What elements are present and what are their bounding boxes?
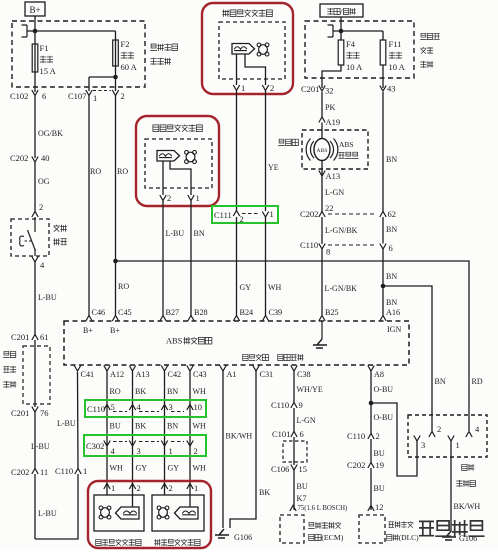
svg-text:15 A: 15 A <box>40 66 57 76</box>
fuel connector pin 4 <box>466 424 480 437</box>
wire BU <box>371 439 385 463</box>
RR sensor pin 1 <box>187 483 198 493</box>
toothed ring <box>257 43 269 56</box>
wire L-GN <box>322 176 344 213</box>
label 左后轮速传感器 <box>96 539 141 546</box>
data link connector DLC (dashed) <box>359 515 385 543</box>
svg-text:A8: A8 <box>374 370 384 379</box>
connector C201 pin 43 <box>380 84 396 94</box>
svg-text:C102: C102 <box>10 91 28 101</box>
svg-text:C106: C106 <box>271 464 289 474</box>
svg-text:BK: BK <box>259 488 270 497</box>
pin label B+ (C45) <box>110 326 120 335</box>
wire to fuse box <box>340 17 342 31</box>
svg-text:BK: BK <box>135 422 146 431</box>
label ABS控制单元 <box>166 337 212 346</box>
wire L-BU to C201 <box>35 262 57 336</box>
svg-text:22: 22 <box>325 203 334 213</box>
RR sensor element <box>175 507 199 519</box>
sensor inner housing (dashed) <box>145 139 212 188</box>
connector C102 pin 6 <box>10 90 46 101</box>
svg-text:1: 1 <box>196 193 200 203</box>
svg-text:F4: F4 <box>346 39 356 49</box>
svg-text:A13: A13 <box>326 171 341 181</box>
svg-text:C41: C41 <box>81 370 95 379</box>
connector C202 pin 22 / pin 62 (dashed link) <box>300 203 396 219</box>
svg-text:BK: BK <box>135 387 146 396</box>
brake switch label 制动开关 <box>53 225 67 246</box>
LR sensor element <box>116 507 140 519</box>
svg-text:1: 1 <box>93 93 97 103</box>
svg-text:A19: A19 <box>326 117 341 127</box>
engine compartment fuse box (dashed) <box>12 21 145 87</box>
LR sensor pin 2 <box>129 483 140 493</box>
svg-text:L-BU: L-BU <box>38 509 57 518</box>
fuse F4 10A <box>322 31 363 88</box>
svg-text:BU: BU <box>374 484 385 493</box>
ABS pin A16 <box>380 308 400 321</box>
svg-text:75(1.6 L BOSCH): 75(1.6 L BOSCH) <box>298 505 348 512</box>
svg-text:10 A: 10 A <box>389 62 406 72</box>
fuse F11 10A <box>341 31 406 88</box>
svg-text:B28: B28 <box>194 308 208 317</box>
svg-text:9: 9 <box>299 400 303 410</box>
ABS pin C39 <box>262 308 282 321</box>
fuel connector pin 3 <box>414 436 425 451</box>
sensor internal wires <box>237 54 266 85</box>
wire BK from C31 <box>230 371 270 528</box>
svg-text:B25: B25 <box>325 308 339 317</box>
svg-text:ABS: ABS <box>339 140 354 149</box>
svg-text:32: 32 <box>325 86 334 96</box>
svg-text:A1: A1 <box>227 370 237 379</box>
junction BN branch <box>381 284 432 431</box>
svg-text:B24: B24 <box>240 308 254 317</box>
junction run/start node <box>339 29 344 34</box>
wire BK/WH from A1 to G106 <box>223 371 252 528</box>
sensor pin 2 <box>262 83 274 93</box>
connector C106 pin 15 <box>271 464 307 474</box>
svg-text:GY: GY <box>168 464 180 473</box>
LR sensor pin 1 <box>104 483 115 493</box>
svg-text:C202: C202 <box>347 460 365 470</box>
svg-text:L-BU: L-BU <box>166 229 185 238</box>
wire B+ to fuse box <box>34 16 36 31</box>
svg-text:YE: YE <box>268 163 279 172</box>
connector C111 (green) <box>212 206 278 224</box>
svg-text:L-GN: L-GN <box>297 416 316 425</box>
internal ground at B25 <box>313 321 327 348</box>
wire GY (C111-2 to ABS B24) <box>237 217 252 316</box>
underdash fuse box label 仪表板下熔丝盒 <box>420 33 440 67</box>
wire WH <box>193 464 207 473</box>
svg-text:B+: B+ <box>30 5 41 15</box>
svg-text:F1: F1 <box>40 43 49 53</box>
svg-text:PK: PK <box>325 103 335 112</box>
label 数据链路插头(DLC) <box>387 521 420 542</box>
node A19 <box>319 117 340 127</box>
rear wheel speed sensors (red box) <box>88 481 211 548</box>
svg-text:RO: RO <box>90 167 101 176</box>
wire BU <box>110 422 121 431</box>
svg-text:60 A: 60 A <box>121 62 138 72</box>
connector C201 pin 61 <box>11 332 49 342</box>
sensor inner housing (dashed) <box>219 22 285 79</box>
svg-text:L-BU: L-BU <box>38 293 57 302</box>
fuse F1 15A <box>32 31 56 92</box>
pin label B+ (C46) <box>83 326 93 335</box>
wire RO (C107-2 to ABS C45) <box>116 96 130 316</box>
sensor element <box>232 44 255 55</box>
wire PK from C201-32 <box>322 92 335 117</box>
svg-text:BN: BN <box>386 155 397 164</box>
svg-text:76: 76 <box>40 408 49 418</box>
svg-text:WH: WH <box>193 387 207 396</box>
svg-text:8: 8 <box>326 247 330 257</box>
svg-text:3: 3 <box>169 402 173 412</box>
svg-text:RO: RO <box>117 167 128 176</box>
svg-text:RO: RO <box>110 387 121 396</box>
svg-text:2: 2 <box>270 83 274 93</box>
svg-text:BK/WH: BK/WH <box>454 502 481 511</box>
svg-text:C45: C45 <box>118 308 132 317</box>
svg-text:C107: C107 <box>68 91 86 101</box>
svg-text:BU: BU <box>110 422 121 431</box>
svg-text:3: 3 <box>421 440 425 450</box>
node RUN/START feed 运行/起动 <box>320 4 363 17</box>
connector C110 pin 9 <box>271 400 303 410</box>
svg-text:G106: G106 <box>234 533 252 542</box>
ABS pin A13 <box>129 366 149 380</box>
svg-text:WH/YE: WH/YE <box>297 385 323 394</box>
wire YE RF sensor 2 to C111-1 <box>266 91 279 212</box>
ABS pin C38 <box>291 366 311 380</box>
connector C110 pins 5,4,3,10 (green) <box>85 400 206 417</box>
svg-text:12: 12 <box>375 502 384 512</box>
svg-text:C201: C201 <box>301 84 319 94</box>
wire RO (C107-1 to ABS C46) <box>89 96 101 316</box>
dash panel fuse block (pass-through, dashed) <box>23 340 50 407</box>
svg-text:GY: GY <box>136 464 148 473</box>
instrument cluster label 仪表组 <box>278 139 298 145</box>
svg-text:5: 5 <box>111 402 115 412</box>
svg-text:C201: C201 <box>11 332 29 342</box>
toothed ring <box>185 151 197 164</box>
svg-text:O-BU: O-BU <box>374 413 394 422</box>
connector C110 pin 1 <box>55 466 87 476</box>
wire L-GN <box>294 408 316 432</box>
svg-text:C202: C202 <box>11 467 29 477</box>
svg-text:2: 2 <box>194 446 198 456</box>
svg-text:C43: C43 <box>193 370 207 379</box>
svg-text:C38: C38 <box>297 370 311 379</box>
ground G106 (right) <box>442 531 477 543</box>
svg-text:BN: BN <box>435 377 446 386</box>
wire BN <box>167 422 178 431</box>
svg-text:19: 19 <box>376 460 385 470</box>
wire bottom run to C110 pin 1 <box>35 474 78 539</box>
svg-text:BU: BU <box>297 482 308 491</box>
label 供油连接器 <box>456 464 475 487</box>
svg-text:62: 62 <box>388 209 397 219</box>
svg-text:61: 61 <box>40 332 49 342</box>
ABS pin C45 <box>112 308 131 321</box>
fuel connector pin 2 <box>429 424 441 437</box>
wire L-GN/BK <box>322 217 358 244</box>
svg-text:ABS: ABS <box>317 148 328 154</box>
svg-text:A16: A16 <box>386 308 400 317</box>
sensor pin 1 <box>233 83 245 93</box>
ABS pin A1 <box>220 366 237 380</box>
connector C107 pins 1 and 2 <box>68 90 125 103</box>
svg-text:2: 2 <box>169 483 173 493</box>
svg-text:C110: C110 <box>300 240 318 250</box>
svg-text:BN: BN <box>167 422 178 431</box>
connector C202 pin 11 <box>11 467 48 477</box>
svg-text:2: 2 <box>240 214 244 224</box>
wire OG <box>35 162 50 212</box>
brake switch pin 2 <box>32 202 43 217</box>
wire BN (C42) <box>165 371 179 489</box>
junction below F2 <box>89 75 118 91</box>
svg-text:C46: C46 <box>92 308 106 317</box>
wire RF sensor 1 to C111-2 <box>236 91 238 212</box>
svg-text:2: 2 <box>137 483 141 493</box>
svg-text:C39: C39 <box>269 308 283 317</box>
svg-text:BK/WH: BK/WH <box>226 432 253 441</box>
svg-text:6: 6 <box>300 429 304 439</box>
ground G106 (left) <box>215 529 252 542</box>
wire L-BU <box>31 412 50 469</box>
svg-text:F11: F11 <box>389 39 402 49</box>
svg-text:G106: G106 <box>459 534 477 543</box>
wire BU to ECM <box>294 470 308 510</box>
svg-text:3: 3 <box>137 446 141 456</box>
svg-text:1: 1 <box>194 483 198 493</box>
wire BN to fuel connector pin 2 <box>435 377 446 386</box>
svg-text:F2: F2 <box>121 39 130 49</box>
engine control module ECM (dashed) <box>280 515 304 543</box>
svg-text:B+: B+ <box>110 326 120 335</box>
label 右后轮速传感器 <box>154 539 200 546</box>
label 单行数据 (serial data) <box>278 354 304 361</box>
svg-text:BU: BU <box>374 449 385 458</box>
svg-text:C42: C42 <box>168 370 182 379</box>
wire O-BU <box>371 403 393 434</box>
engine fuse box label 发动机舱熔丝盒 <box>150 44 177 65</box>
svg-text:RD: RD <box>472 377 483 386</box>
connector C101 pin 6 <box>272 429 304 439</box>
svg-text:2: 2 <box>121 91 125 101</box>
svg-text:15: 15 <box>299 464 308 474</box>
svg-text:C110: C110 <box>87 404 105 414</box>
wire BK <box>135 422 146 431</box>
svg-text:BN: BN <box>194 229 205 238</box>
wire L-BU to bottom run <box>35 474 57 539</box>
ABS pin A8 <box>368 366 384 380</box>
watermark 智宸网络 <box>419 520 485 537</box>
svg-text:WH: WH <box>193 464 207 473</box>
wire OG/BK <box>35 96 63 159</box>
svg-text:BN: BN <box>386 298 397 307</box>
wire RO (A12) <box>107 371 121 489</box>
svg-text:ABS: ABS <box>166 337 183 346</box>
sensor internal wires <box>163 161 191 195</box>
ABS pin A12 <box>104 366 124 380</box>
wire WH/YE from C38 <box>294 371 323 403</box>
svg-text:10: 10 <box>194 402 203 412</box>
wire WH (C43) <box>190 371 206 489</box>
svg-text:O-BU: O-BU <box>374 385 394 394</box>
svg-text:L-GN/BK: L-GN/BK <box>325 226 358 235</box>
svg-text:WH: WH <box>193 422 207 431</box>
svg-text:C101: C101 <box>272 429 290 439</box>
wire to fuse F2 <box>35 31 116 91</box>
sensor pin 1 <box>188 193 200 203</box>
svg-text:C302: C302 <box>86 441 104 451</box>
connector C110 pin 2 <box>347 431 380 441</box>
junction O-BU branch <box>369 401 417 476</box>
ABS pin C43 <box>187 366 207 380</box>
svg-text:C202: C202 <box>10 153 28 163</box>
svg-text:L-GN: L-GN <box>325 188 344 197</box>
svg-text:1: 1 <box>456 440 460 450</box>
svg-text:C201: C201 <box>11 408 29 418</box>
svg-text:1: 1 <box>83 466 87 476</box>
connector C302 pins 4,3,1,2 (green) <box>84 435 206 456</box>
ABS pin C46 <box>86 308 105 321</box>
svg-text:RO: RO <box>118 282 129 291</box>
fuel feed connector 供油连接器 (dashed) <box>408 415 487 457</box>
pin label IGN (A16) <box>387 325 401 334</box>
svg-text:L-BU: L-BU <box>31 442 50 451</box>
svg-text:11: 11 <box>40 467 48 477</box>
svg-text:A13: A13 <box>136 370 150 379</box>
sensor pin 2 <box>160 193 171 203</box>
svg-text:L-BU: L-BU <box>57 419 76 428</box>
wire O-BU from A8 <box>371 371 393 403</box>
svg-text:C110: C110 <box>347 431 365 441</box>
svg-text:6: 6 <box>389 243 393 253</box>
svg-text:IGN: IGN <box>387 325 401 334</box>
ECM pin K7 75 <box>290 494 347 512</box>
svg-text:GY: GY <box>240 283 252 292</box>
label 右前轮速传感器 <box>222 10 272 17</box>
svg-text:2: 2 <box>167 193 171 203</box>
svg-text:10 A: 10 A <box>346 62 363 72</box>
connector C202 pin 40 <box>10 153 50 163</box>
svg-text:OG: OG <box>38 177 50 186</box>
svg-text:1: 1 <box>270 209 274 219</box>
svg-text:C110: C110 <box>55 466 73 476</box>
wire RD feed from C45 node to fuel connector pin 4 <box>113 259 483 431</box>
svg-text:1: 1 <box>111 483 115 493</box>
wire GY <box>168 464 180 473</box>
wire BU to DLC <box>371 468 385 510</box>
node B+ battery feed <box>25 2 45 16</box>
wire GY <box>136 464 148 473</box>
svg-text:2: 2 <box>437 424 441 434</box>
right front wheel speed sensor (red box) <box>202 3 293 94</box>
ABS control unit (dashed box) <box>64 321 409 365</box>
svg-text:BN: BN <box>386 225 397 234</box>
terminal bracket symbol <box>22 25 36 37</box>
svg-text:B+: B+ <box>83 326 93 335</box>
svg-text:BN: BN <box>167 387 178 396</box>
left rear sensor housing <box>94 489 144 531</box>
ABS pin C41 <box>74 366 94 380</box>
ABS pin B24 <box>233 308 253 321</box>
wire BN to junction and A16 <box>383 249 397 315</box>
svg-text:K7: K7 <box>297 494 307 503</box>
terminal bracket symbol <box>328 25 342 37</box>
svg-text:1: 1 <box>241 83 245 93</box>
wire L-BU (LF sensor 2 to ABS B27) <box>163 201 184 316</box>
label 左前轮速传感器 <box>153 125 202 132</box>
svg-text:C111: C111 <box>214 210 232 220</box>
ABS pin C31 <box>253 366 273 380</box>
dash fuse block label 仪表板熔丝盒 <box>3 351 16 387</box>
svg-text:BN: BN <box>386 272 397 281</box>
svg-text:C31: C31 <box>260 370 274 379</box>
left front wheel speed sensor (red box) <box>136 116 219 206</box>
lamp label ABS 警告灯 <box>338 140 358 159</box>
wire BN (LF sensor 1 to ABS B28) <box>191 201 205 316</box>
brake switch pin 4 <box>32 257 45 271</box>
right rear sensor housing <box>152 489 204 531</box>
svg-text:(ECM): (ECM) <box>321 533 343 542</box>
svg-text:2: 2 <box>39 202 43 212</box>
wire BK/WH from pin 1 to G106 <box>451 441 480 531</box>
ABS warning lamp <box>306 123 338 177</box>
node A13 <box>319 171 340 182</box>
wire BN from fuse F11 pin 43 <box>383 92 397 212</box>
label 不平路面 (rough road) <box>243 354 269 361</box>
svg-text:B27: B27 <box>166 308 180 317</box>
wire BN between C202-62 and C110-6 <box>383 217 397 244</box>
svg-text:6: 6 <box>42 91 46 101</box>
brake switch S1 <box>11 217 49 256</box>
ABS pin C42 <box>161 366 181 380</box>
DLC pin 12 <box>368 502 384 512</box>
connector C202 pin 19 <box>347 460 384 470</box>
svg-text:43: 43 <box>387 84 396 94</box>
wire L-GN/BK to ABS B25 <box>322 249 357 315</box>
svg-text:WH: WH <box>110 464 124 473</box>
harness pass-through (dashed) <box>283 437 307 465</box>
wire WH <box>110 464 124 473</box>
svg-text:1: 1 <box>169 446 173 456</box>
RR toothed ring <box>157 506 169 519</box>
wire BK (A13) <box>133 371 147 489</box>
connector C201 pin 32 <box>301 84 334 96</box>
fuse F2 60A <box>113 39 138 72</box>
svg-text:2: 2 <box>376 431 380 441</box>
LR toothed ring <box>99 506 111 519</box>
RR sensor pin 2 <box>161 483 172 493</box>
label 发动机控制单元(ECM) <box>308 522 344 542</box>
svg-text:WH: WH <box>268 283 282 292</box>
instrument cluster (dashed) <box>302 130 368 169</box>
ABS pin B27 <box>160 308 179 321</box>
wire WH <box>193 422 207 431</box>
svg-text:C202: C202 <box>300 209 318 219</box>
svg-text:40: 40 <box>41 153 50 163</box>
svg-text:L-GN/BK: L-GN/BK <box>325 284 358 293</box>
connector C201 pin 76 <box>11 407 49 419</box>
fuel connector pin 1 <box>448 436 460 451</box>
ABS pin B25 <box>319 308 339 321</box>
